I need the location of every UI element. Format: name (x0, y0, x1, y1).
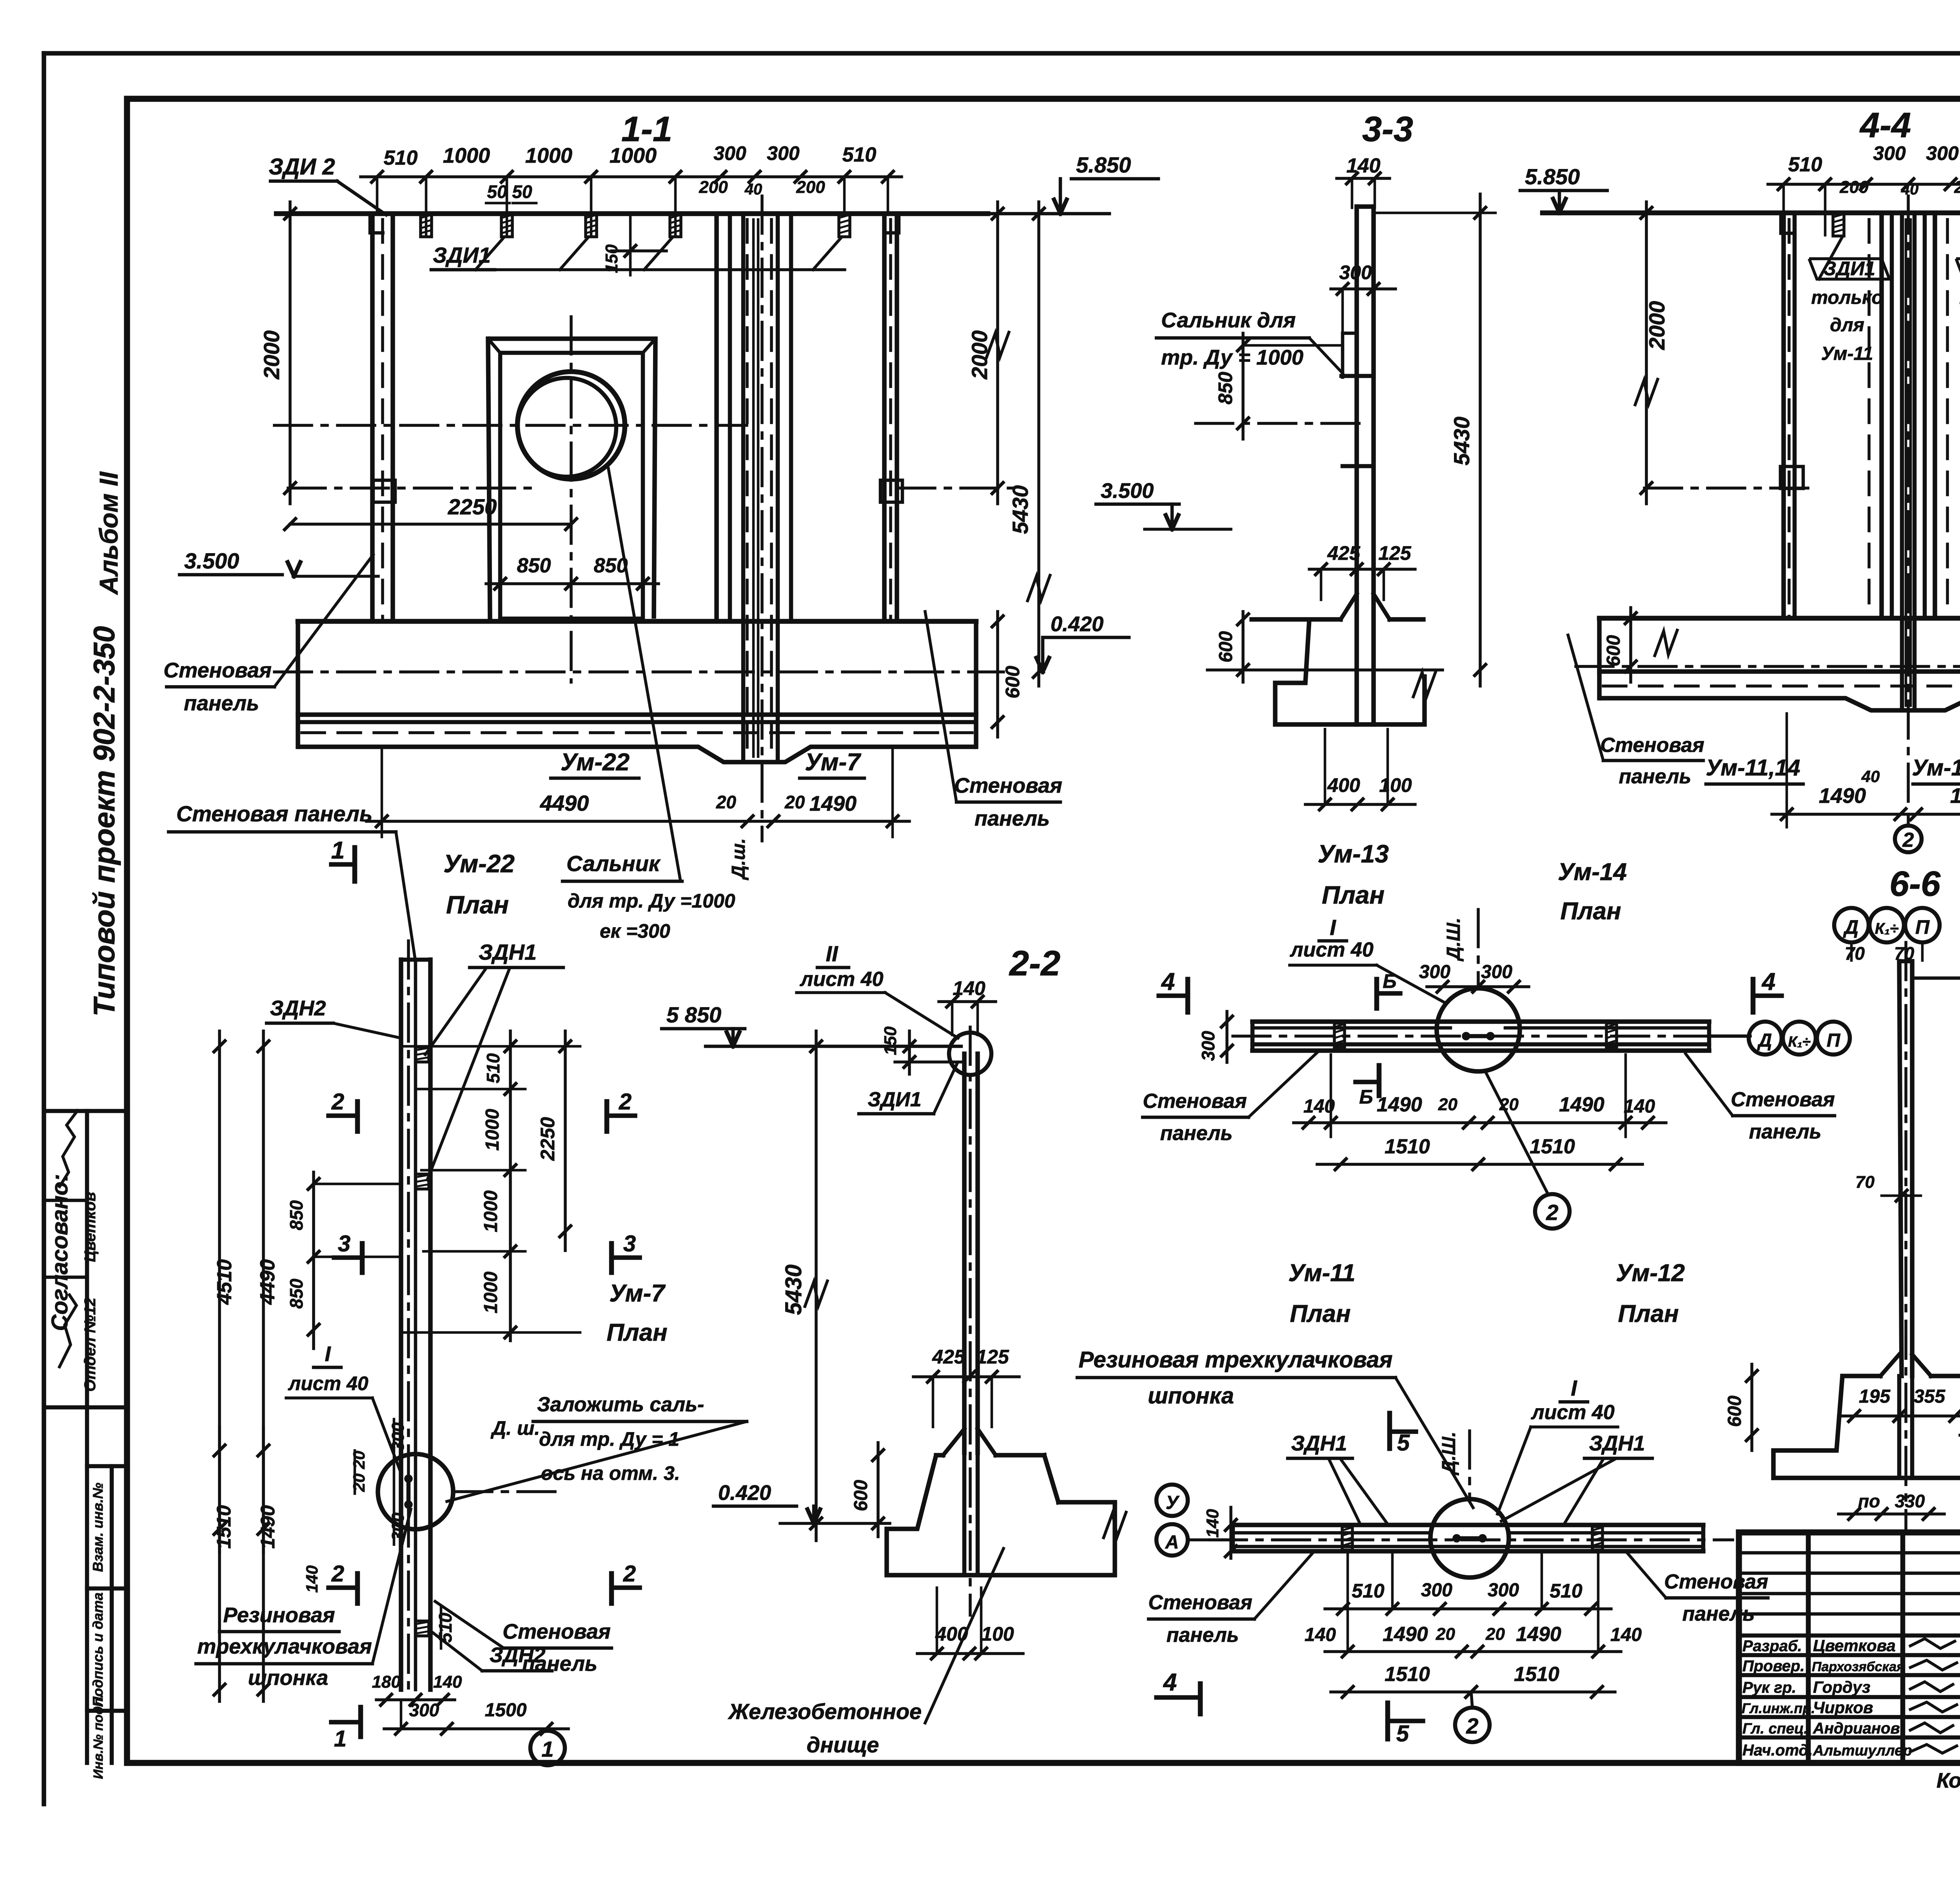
svg-text:ЗДН1: ЗДН1 (1291, 1432, 1347, 1455)
svg-text:панель: панель (1619, 765, 1691, 788)
svg-text:3: 3 (623, 1231, 636, 1256)
svg-text:2250: 2250 (537, 1117, 559, 1161)
6-6 wall column (1899, 961, 1902, 1376)
3-3 foundation bell (1341, 594, 1357, 619)
svg-text:1000: 1000 (481, 1190, 501, 1232)
svg-text:I: I (1330, 915, 1336, 940)
svg-text:3.500: 3.500 (184, 548, 239, 573)
svg-text:План: План (446, 891, 509, 919)
svg-text:лист 40: лист 40 (799, 968, 884, 991)
svg-text:панель: панель (1160, 1122, 1233, 1145)
svg-text:300: 300 (409, 1700, 439, 1720)
svg-text:Стеновая: Стеновая (1664, 1570, 1768, 1593)
svg-text:195: 195 (1859, 1386, 1891, 1407)
plan7 dim lines horizontal entries (401, 1045, 580, 1048)
svg-text:300: 300 (1419, 962, 1450, 982)
title block upper thin rows (1739, 1551, 1960, 1555)
svg-text:План: План (1560, 898, 1621, 925)
svg-text:40: 40 (744, 181, 762, 198)
svg-text:Ум-11: Ум-11 (1821, 343, 1873, 364)
svg-text:Сальник: Сальник (566, 851, 661, 876)
svg-text:Д.Ш.: Д.Ш. (1443, 918, 1464, 962)
svg-text:2250: 2250 (448, 494, 497, 519)
svg-text:А: А (1165, 1532, 1179, 1553)
svg-text:План: План (1618, 1300, 1679, 1327)
svg-text:панель: панель (975, 807, 1050, 830)
svg-text:510: 510 (483, 1053, 503, 1083)
svg-text:300: 300 (767, 142, 800, 164)
plan13 axis circle 2 (1535, 1194, 1570, 1229)
svg-text:тр. Ду = 1000: тр. Ду = 1000 (1161, 346, 1303, 369)
svg-text:Стеновая: Стеновая (1731, 1088, 1835, 1111)
4-4 top dim line and texts (1768, 183, 1960, 186)
3-3 wall column (1354, 207, 1359, 724)
1-1 right dim 2000 (996, 202, 999, 504)
svg-text:Заложить саль-: Заложить саль- (537, 1393, 704, 1416)
svg-text:300: 300 (1873, 142, 1906, 164)
svg-text:для тр. Ду = 1: для тр. Ду = 1 (539, 1428, 679, 1450)
svg-text:Цветков: Цветков (82, 1192, 99, 1262)
svg-text:Провер.: Провер. (1742, 1657, 1805, 1675)
svg-text:У: У (1166, 1492, 1180, 1513)
2-2 dim 5430 (815, 1031, 818, 1541)
sidebar signatures (59, 1109, 78, 1188)
plan11 dims row 140 1490 20 20 1490 140 (1325, 1650, 1621, 1653)
1-1 door opening salnik frame outer (488, 339, 655, 619)
svg-text:1490: 1490 (1383, 1623, 1428, 1646)
svg-text:140: 140 (1624, 1096, 1655, 1117)
svg-text:Разраб.: Разраб. (1742, 1637, 1802, 1655)
svg-text:4510: 4510 (213, 1259, 236, 1305)
svg-text:II: II (826, 941, 838, 966)
svg-text:1490: 1490 (1819, 784, 1866, 808)
svg-text:1510: 1510 (1514, 1663, 1559, 1686)
svg-text:1000: 1000 (525, 144, 572, 167)
1-1 left wall panel (370, 214, 375, 621)
svg-text:Стеновая: Стеновая (163, 659, 272, 682)
plan13 wall strip (1252, 1019, 1709, 1024)
svg-text:только: только (1811, 287, 1883, 308)
svg-text:2: 2 (331, 1089, 344, 1115)
svg-text:Ум-22: Ум-22 (443, 850, 515, 878)
1-1 section mark 1 left bottom (352, 848, 358, 881)
1-1 horizontal axis through circle (274, 424, 747, 427)
svg-text:шпонка: шпонка (248, 1666, 328, 1690)
svg-text:5.850: 5.850 (1525, 164, 1580, 189)
svg-text:510: 510 (1550, 1580, 1583, 1602)
4-4 left wall panel (1781, 213, 1786, 618)
svg-text:400: 400 (1327, 774, 1360, 796)
svg-text:панель: панель (1167, 1624, 1239, 1646)
svg-text:2: 2 (1466, 1714, 1478, 1738)
svg-text:1490: 1490 (1559, 1093, 1604, 1116)
svg-text:П: П (1915, 916, 1930, 938)
svg-text:0.420: 0.420 (1051, 612, 1103, 636)
plan11 mark 5 bottom (1385, 1703, 1390, 1739)
1-1 dim 850 850 in door (486, 582, 659, 585)
svg-text:шпонка: шпонка (1148, 1383, 1234, 1409)
plan13 dims row 1490 (1294, 1121, 1666, 1124)
svg-text:300: 300 (1926, 142, 1959, 164)
plan7 marks 2T T2 upper (328, 1113, 358, 1118)
svg-text:510: 510 (1788, 153, 1822, 176)
svg-text:Ум-7: Ум-7 (805, 749, 861, 776)
svg-text:Ум-13: Ум-13 (1318, 840, 1389, 868)
svg-text:6-6: 6-6 (1889, 864, 1941, 904)
1-1 dim 2250 (290, 523, 571, 526)
title block name rows (1739, 1634, 1960, 1638)
plan13 section mark 4 left (1185, 979, 1191, 1012)
svg-text:Гл.инж.пр.: Гл.инж.пр. (1742, 1700, 1815, 1716)
plan7 dim 2250 right (564, 1031, 567, 1251)
svg-text:Нач.отд.: Нач.отд. (1742, 1742, 1813, 1759)
plan7 right dim chain 510 1000 1000 1000 (509, 1031, 512, 1341)
plan11 dims row 1510 1510 (1331, 1690, 1615, 1694)
3-3 foundation boot (1275, 619, 1425, 724)
svg-text:Чирков: Чирков (1813, 1698, 1873, 1717)
svg-text:4: 4 (1163, 1669, 1177, 1696)
svg-text:20: 20 (1438, 1095, 1457, 1114)
svg-text:3-3: 3-3 (1362, 110, 1413, 149)
6-6 foundation bell (1880, 1354, 1899, 1376)
1-1 right dim 5430 (1037, 202, 1040, 686)
plan11 axis circle 2 (1455, 1708, 1490, 1742)
svg-text:Ум-22: Ум-22 (561, 749, 630, 776)
svg-text:Пархозябская: Пархозябская (1812, 1659, 1904, 1674)
svg-text:300: 300 (388, 1422, 408, 1451)
1-1 bottom slab (298, 619, 976, 624)
svg-text:лист 40: лист 40 (1530, 1401, 1615, 1424)
1-1 wall top line (276, 211, 988, 216)
svg-text:20: 20 (350, 1474, 368, 1492)
svg-text:Рук гр.: Рук гр. (1742, 1679, 1796, 1696)
6-6 dim 600 left (1750, 1364, 1753, 1450)
svg-text:ек =300: ек =300 (600, 920, 670, 942)
svg-text:Д.ш.: Д.ш. (728, 838, 749, 880)
3-3 right dim 5430 (1479, 194, 1482, 686)
svg-text:Инв.№ подл.: Инв.№ подл. (91, 1694, 106, 1779)
svg-text:1510: 1510 (1385, 1663, 1430, 1686)
svg-text:1000: 1000 (481, 1271, 501, 1313)
plan7 left dim 4510 4490 (218, 1031, 221, 1552)
svg-text:140: 140 (433, 1672, 462, 1692)
svg-text:330: 330 (1895, 1491, 1925, 1511)
1-1 salnik circle (517, 372, 625, 479)
svg-text:1510: 1510 (1530, 1135, 1575, 1158)
svg-text:Стеновая: Стеновая (1148, 1591, 1252, 1614)
svg-text:200: 200 (796, 178, 825, 197)
1-1 left wall square mark (373, 480, 395, 502)
svg-text:125: 125 (1378, 542, 1412, 564)
title block columns (1806, 1532, 1811, 1763)
svg-text:4490: 4490 (256, 1259, 279, 1305)
plan11 dims row 510 300 300 510 (1325, 1607, 1611, 1610)
svg-text:Андрианов: Андрианов (1813, 1720, 1900, 1737)
4-4 bottom slab (1599, 616, 1960, 621)
plan7 joint keys hatched (416, 1047, 429, 1062)
svg-text:Стеновая панель: Стеновая панель (176, 801, 373, 826)
svg-text:180: 180 (372, 1672, 401, 1692)
svg-text:Согласовано:: Согласовано: (47, 1174, 73, 1331)
plan11 axis circles U A left (1156, 1485, 1188, 1516)
svg-text:Взам. инв.№: Взам. инв.№ (90, 1483, 106, 1572)
svg-text:1000: 1000 (482, 1109, 503, 1151)
plan7 left dim 850 850 (312, 1172, 315, 1349)
svg-text:50: 50 (487, 182, 507, 202)
svg-text:600: 600 (1603, 635, 1624, 666)
1-1 right wall square mark (880, 480, 902, 502)
svg-text:4490: 4490 (540, 791, 589, 815)
svg-text:Стеновая: Стеновая (954, 774, 1062, 797)
svg-text:Ум-14: Ум-14 (1558, 859, 1627, 886)
plan13 section mark 4 right (1751, 979, 1756, 1012)
4-4 wall top line (1543, 211, 1960, 216)
svg-text:40: 40 (1861, 767, 1880, 786)
svg-text:125: 125 (976, 1346, 1009, 1368)
svg-text:140: 140 (303, 1565, 321, 1593)
svg-text:I: I (325, 1342, 331, 1366)
svg-text:Цветкова: Цветкова (1813, 1636, 1896, 1655)
3-3 dim 600 (1241, 612, 1245, 682)
svg-text:300: 300 (713, 142, 746, 164)
plan13 mark B top (1374, 979, 1379, 1008)
svg-text:днище: днище (807, 1732, 879, 1757)
svg-text:850: 850 (286, 1278, 307, 1309)
1-1 axis line 3.500 level (288, 486, 537, 490)
svg-text:70: 70 (1855, 1173, 1875, 1192)
svg-text:Альтшуллер: Альтшуллер (1813, 1743, 1912, 1759)
svg-text:1490: 1490 (1377, 1093, 1422, 1116)
sidebar divider lines (44, 1109, 127, 1113)
svg-text:4: 4 (1161, 968, 1175, 995)
svg-text:трехкулачковая: трехкулачковая (197, 1635, 372, 1658)
svg-text:ЗДИ 2: ЗДИ 2 (269, 154, 335, 180)
svg-text:Сальник для: Сальник для (1161, 309, 1296, 332)
svg-text:ЗДН1: ЗДН1 (1589, 1432, 1645, 1455)
svg-text:355: 355 (1914, 1386, 1945, 1407)
svg-text:1510: 1510 (1385, 1135, 1430, 1158)
svg-text:1490: 1490 (809, 792, 857, 815)
plan11 wall strip (1233, 1523, 1703, 1527)
svg-text:850: 850 (286, 1200, 307, 1230)
2-2 node circle at top (949, 1033, 991, 1075)
svg-text:300: 300 (1198, 1031, 1218, 1061)
svg-text:лист 40: лист 40 (1289, 938, 1374, 961)
svg-text:150: 150 (881, 1026, 900, 1055)
svg-text:Гордуз: Гордуз (1813, 1678, 1870, 1696)
svg-text:1: 1 (334, 1726, 347, 1752)
svg-text:200: 200 (699, 178, 728, 197)
plan7 marks 3 T3 (334, 1255, 362, 1260)
svg-text:1000: 1000 (610, 144, 657, 167)
svg-text:5430: 5430 (1449, 417, 1474, 466)
svg-text:510: 510 (384, 147, 418, 169)
svg-text:200: 200 (1839, 178, 1869, 197)
svg-text:Стеновая: Стеновая (1600, 734, 1704, 757)
4-4 axis circle 2 (1895, 826, 1922, 852)
1-1 left dim 2000 (289, 202, 292, 504)
svg-text:5: 5 (1397, 1430, 1410, 1456)
svg-text:600: 600 (851, 1480, 871, 1511)
plan7 node circle (378, 1454, 453, 1529)
2-2 foundation bell and boot (943, 1429, 964, 1455)
svg-text:Типовой проект 902-2-350: Типовой проект 902-2-350 (88, 626, 121, 1017)
1-1 top dimension line (361, 175, 902, 178)
4-4 label ZDN1 tolko dlya Um-11 (1809, 259, 1889, 279)
svg-text:140: 140 (1610, 1625, 1642, 1645)
plan13 axis circles D K1 P right (1709, 1035, 1749, 1038)
3-3 left dim 850 (1241, 333, 1245, 439)
svg-text:1000: 1000 (443, 144, 490, 167)
plan11 mark 4 bottom left (1156, 1695, 1200, 1700)
svg-text:510: 510 (1352, 1580, 1385, 1602)
3-3 foundation bottom level line (1207, 668, 1443, 672)
svg-text:510: 510 (842, 143, 877, 166)
svg-text:300: 300 (1488, 1580, 1519, 1601)
svg-text:20: 20 (350, 1451, 368, 1470)
svg-text:Подпись и дата: Подпись и дата (90, 1592, 106, 1707)
svg-text:Резиновая трехкулачковая: Резиновая трехкулачковая (1078, 1347, 1392, 1372)
svg-text:лист 40: лист 40 (288, 1372, 368, 1394)
svg-text:ЗДН1: ЗДН1 (479, 940, 537, 964)
4-4 bottom dims 1490 1490 (1772, 813, 1960, 816)
svg-text:300: 300 (1481, 962, 1512, 982)
svg-text:Гл. спец.: Гл. спец. (1742, 1721, 1808, 1737)
svg-text:425: 425 (932, 1346, 965, 1368)
svg-text:70: 70 (1845, 943, 1865, 964)
svg-text:3: 3 (338, 1231, 350, 1256)
svg-text:0.420: 0.420 (718, 1481, 771, 1505)
1-1 extension verticals from dim line (376, 177, 379, 214)
svg-text:ось на отм. 3.: ось на отм. 3. (541, 1462, 680, 1484)
svg-text:Резиновая: Резиновая (223, 1603, 335, 1627)
svg-text:Ум-11: Ум-11 (1288, 1260, 1355, 1287)
svg-text:5 850: 5 850 (666, 1002, 721, 1027)
svg-text:1500: 1500 (485, 1700, 527, 1721)
svg-text:20: 20 (784, 792, 805, 812)
6-6 axis circles D K1 P (1834, 908, 1869, 942)
svg-text:П: П (1827, 1030, 1841, 1051)
4-4 hatched keys (1833, 214, 1844, 236)
svg-text:20: 20 (716, 792, 737, 812)
1-1 right wall panel (882, 214, 887, 621)
svg-text:I: I (1571, 1376, 1577, 1400)
plan11 node circle (1430, 1499, 1509, 1577)
1-1 ZDN1 hatched keys (421, 215, 432, 237)
svg-text:200: 200 (1954, 178, 1960, 197)
svg-text:Железобетонное: Железобетонное (728, 1699, 922, 1724)
svg-text:ЗДИ1: ЗДИ1 (1824, 258, 1875, 280)
svg-text:2000: 2000 (1644, 301, 1669, 350)
svg-text:панель: панель (184, 692, 259, 715)
svg-text:Д: Д (1757, 1030, 1772, 1051)
svg-text:3.500: 3.500 (1101, 479, 1154, 503)
svg-text:1: 1 (541, 1737, 554, 1761)
plan13 panel joint keys (1334, 1023, 1345, 1047)
plan13 dims row 1510 (1317, 1163, 1642, 1166)
svg-text:Б: Б (1359, 1086, 1373, 1108)
svg-text:4-4: 4-4 (1859, 106, 1911, 145)
plan7 axis circle 1 (530, 1731, 565, 1765)
svg-text:2: 2 (1902, 829, 1914, 851)
svg-text:140: 140 (1305, 1625, 1336, 1645)
svg-text:2-2: 2-2 (1009, 944, 1060, 983)
svg-text:Альбом II: Альбом II (94, 471, 123, 595)
svg-text:1490: 1490 (257, 1505, 279, 1548)
svg-text:850: 850 (1214, 372, 1236, 405)
plan13 mark B bottom (1377, 1066, 1382, 1096)
plan11 panel joint keys (1342, 1527, 1352, 1550)
svg-text:ЗДИ1: ЗДИ1 (867, 1088, 921, 1111)
svg-text:140: 140 (1203, 1509, 1222, 1538)
1-1 bottom dim 4490 20 20 1490 (367, 820, 909, 823)
svg-text:2: 2 (619, 1089, 632, 1115)
svg-text:5.850: 5.850 (1076, 152, 1131, 177)
svg-text:300: 300 (1339, 261, 1372, 283)
svg-text:2: 2 (1546, 1200, 1558, 1225)
svg-text:План: План (1290, 1300, 1350, 1327)
svg-text:4: 4 (1761, 968, 1775, 995)
plan7 strip verticals (399, 960, 403, 1690)
plan7 marks 2T T2 lower (328, 1585, 358, 1590)
1-1 door opening inner (500, 353, 643, 619)
svg-text:План: План (1322, 881, 1385, 909)
svg-text:План: План (606, 1319, 667, 1346)
4-4 left wall square mark (1780, 467, 1803, 488)
svg-text:5430: 5430 (781, 1264, 806, 1315)
svg-text:Ум-12: Ум-12 (1616, 1260, 1685, 1287)
svg-text:5: 5 (1396, 1721, 1409, 1746)
svg-text:К₁÷: К₁÷ (1788, 1034, 1811, 1050)
svg-text:1-1: 1-1 (621, 110, 672, 149)
1-1 door vertical axis (570, 317, 573, 682)
svg-text:850: 850 (517, 554, 551, 577)
title block outline (1739, 1532, 1960, 1763)
svg-text:панель: панель (1682, 1603, 1755, 1625)
3-3 pipe axis dash line (1196, 422, 1364, 425)
svg-text:Д.Ш.: Д.Ш. (1439, 1432, 1459, 1476)
svg-text:Отдел №12: Отдел №12 (82, 1298, 99, 1392)
4-4 dim 600 left of slab (1629, 608, 1632, 682)
svg-text:300: 300 (1421, 1580, 1452, 1601)
svg-text:1490: 1490 (1950, 784, 1960, 808)
svg-text:1490: 1490 (1516, 1623, 1561, 1646)
4-4 left dim 2000 (1645, 202, 1648, 504)
svg-text:Стеновая: Стеновая (503, 1620, 611, 1643)
svg-text:Копировал. Доценко: Копировал. Доценко (1936, 1769, 1960, 1792)
plan7 left dims 1510 1490 lower (218, 1427, 221, 1701)
1-1 right dim 600 (992, 616, 1003, 627)
svg-text:Стеновая: Стеновая (1143, 1090, 1247, 1113)
svg-text:100: 100 (981, 1623, 1014, 1645)
2-2 dim 600 (877, 1443, 880, 1537)
svg-text:для тр. Ду =1000: для тр. Ду =1000 (568, 890, 735, 912)
svg-text:140: 140 (1347, 154, 1381, 177)
plan7 mark 1 bottom (331, 1720, 361, 1725)
outer sheet border (44, 51, 1960, 56)
svg-text:100: 100 (1379, 774, 1412, 796)
svg-text:2000: 2000 (259, 330, 284, 380)
svg-text:К₁÷: К₁÷ (1875, 920, 1899, 937)
svg-text:20: 20 (1485, 1625, 1505, 1644)
svg-text:50: 50 (512, 182, 532, 202)
svg-text:1510: 1510 (213, 1505, 235, 1548)
svg-text:Д: Д (1843, 916, 1858, 938)
svg-text:для: для (1830, 315, 1864, 336)
svg-text:600: 600 (1724, 1396, 1745, 1427)
svg-text:600: 600 (1002, 666, 1024, 699)
svg-text:панель: панель (1749, 1120, 1822, 1143)
